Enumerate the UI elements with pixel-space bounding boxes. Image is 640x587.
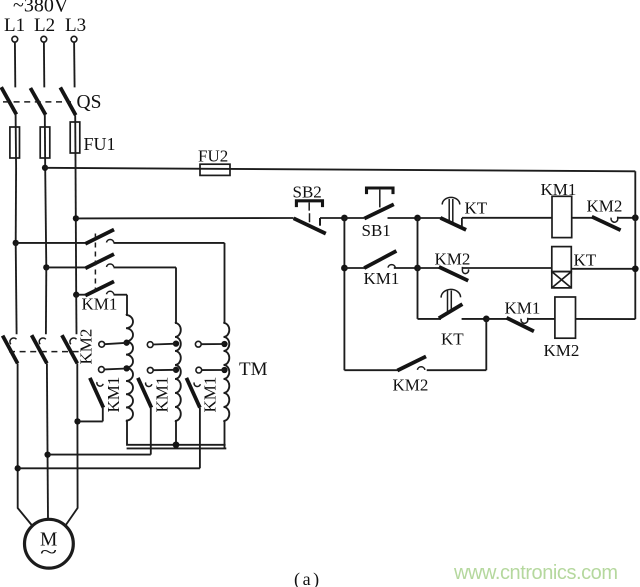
wire phase L2 to KM2 contact	[45, 267, 47, 334]
op coil KT upper box	[552, 247, 572, 272]
node coil 1 lower tap	[123, 365, 129, 371]
svg-text:KM2: KM2	[544, 341, 580, 360]
wire coil 2 bottom lead	[175, 421, 177, 445]
node coil 3 lower tap	[221, 367, 227, 373]
wire coil 1 top lead	[126, 295, 128, 316]
wire coil 3 upper tap	[201, 343, 224, 345]
contact KM1 tap switch 3 hook	[194, 382, 200, 386]
contact KM1 tap switch 1 hook	[97, 382, 103, 386]
contact KM1 NO hook rung 2	[388, 265, 395, 268]
wire middle rail	[417, 218, 419, 319]
op coil KM2	[555, 297, 576, 338]
wire phase L2 upper	[43, 42, 45, 87]
node coil 1 upper tap	[123, 340, 129, 346]
wire phase L3 lower	[65, 363, 78, 526]
op coil KM1	[552, 196, 572, 237]
contact KM1 NC hook rung 3	[521, 318, 528, 324]
button SB2 blade	[294, 218, 326, 233]
node phase L1 tap connection	[15, 465, 21, 471]
svg-text:KM1: KM1	[153, 377, 172, 413]
svg-text:KM2: KM2	[77, 329, 96, 365]
node left rail rung 2	[341, 265, 348, 272]
node phase L2 tap connection	[44, 451, 50, 457]
transformer TM coil 2 winding	[175, 323, 181, 422]
wire KT contact to KM1 coil	[462, 217, 552, 219]
wire KM2 contact to KT coil	[462, 267, 551, 269]
node right rail rung 1	[632, 214, 639, 221]
svg-text:QS: QS	[77, 92, 102, 113]
contact KM1 NO blade rung 2	[364, 251, 396, 268]
contact KM2 main hook pole 1	[10, 338, 17, 344]
contact KT delay rung 1 umbrella arc	[442, 197, 460, 204]
wire tap switch 1 lead down	[102, 408, 104, 422]
contact KM2 NC hook rung 1	[611, 217, 618, 223]
wire tap switch 2 to phase L2	[48, 454, 151, 456]
contact KM1 tap switch 2 blade	[138, 378, 152, 408]
contact KM2 main blade pole 1	[3, 336, 18, 364]
contact KT delay rung 1 fixed stub	[461, 218, 463, 226]
contact KT delay rung 1 stem lines	[449, 199, 453, 222]
contact KM1 NC blade rung 3	[507, 318, 534, 332]
wire phase L1 FU1 down to node A	[15, 168, 17, 243]
wire left control rail	[343, 218, 345, 370]
wire phase L3 upper	[73, 42, 76, 87]
svg-text:L1: L1	[4, 15, 25, 36]
wire star bar second line	[127, 447, 227, 449]
terminal coil 2 lower tap	[147, 367, 153, 373]
contact KM2 NO hook rung 4	[417, 367, 425, 370]
node A rung takeoff phase L1	[13, 240, 19, 246]
node F	[414, 265, 421, 272]
node C rung takeoff phase L3	[73, 292, 79, 298]
contact KM1 tap switch 2 hook	[146, 382, 152, 386]
wire KM1 contact to node F	[394, 267, 418, 269]
wire KT contact to node G	[462, 318, 487, 320]
contact KT delay rung 3 stem lines	[448, 291, 452, 313]
terminal coil 1 upper tap	[99, 341, 105, 347]
wire FU2 feeder line	[45, 168, 635, 172]
switch QS blade pole 3	[60, 87, 75, 115]
node right rail rung 2	[632, 265, 639, 272]
contact KM1 main blade rung A	[85, 230, 114, 244]
wire phase L3 QS to FU1	[74, 115, 76, 160]
wire coil 3 top lead	[224, 243, 226, 323]
svg-text:L2: L2	[34, 15, 55, 36]
svg-text:SB1: SB1	[362, 221, 391, 240]
wire coil 3 bottom lead	[224, 421, 226, 449]
contact KM1 main blade rung B	[85, 254, 114, 268]
contact KM2 NO blade rung 4	[397, 356, 426, 370]
wire phase L3 FU1 down to node C	[75, 160, 78, 295]
svg-text:KM2: KM2	[393, 376, 429, 395]
op coil KT delay box with X	[552, 272, 572, 288]
contact KT delay rung 3 umbrella arc	[441, 289, 461, 297]
wire KM2 contact rung 4 to riser	[427, 369, 487, 371]
svg-text:FU1: FU1	[84, 134, 116, 154]
wire rung C right to coil 1 lead	[114, 294, 128, 296]
wire rung B right to coil 2 lead	[114, 266, 177, 268]
contact KM2 main blade pole 2	[32, 335, 47, 363]
node FU2 takeoff on phase L2	[42, 165, 48, 171]
wire coil 1 bottom lead and star bar	[127, 421, 226, 445]
svg-text:(a): (a)	[294, 569, 322, 587]
switch QS linkage dashed line	[3, 101, 71, 103]
contact KM2 NO hook rung 2	[462, 267, 468, 274]
fuse FU1 pole 3	[70, 122, 80, 153]
wire tap switch 3 lead down	[199, 408, 201, 469]
button SB2 fixed contact stub	[319, 218, 321, 226]
contact KM1 main hook rung A	[107, 239, 114, 242]
node G	[483, 316, 490, 323]
svg-text:L3: L3	[65, 15, 86, 36]
contact KM1 tap switch 3 blade	[186, 378, 200, 408]
wire KM1 contact to KM2 coil	[528, 318, 555, 320]
node B rung takeoff phase L2	[43, 264, 49, 270]
svg-text:SB2: SB2	[293, 183, 322, 202]
switch QS blade pole 1	[1, 87, 16, 114]
svg-text:KT: KT	[574, 251, 597, 270]
wire rung A left	[16, 242, 87, 244]
svg-text:KM1: KM1	[541, 180, 577, 199]
contact KM2 main linkage dashed line	[9, 351, 80, 353]
svg-text:KM1: KM1	[505, 299, 541, 318]
contact KM2 NO blade rung 2	[439, 267, 468, 281]
wire coil 2 upper tap	[153, 343, 176, 346]
terminal L2	[41, 36, 47, 42]
svg-text:KM2: KM2	[435, 250, 471, 269]
wire coil 1 lower tap	[104, 368, 126, 371]
svg-text:TM: TM	[239, 359, 268, 380]
svg-text:KM1: KM1	[364, 269, 400, 288]
svg-text:FU2: FU2	[198, 147, 228, 166]
wire coil 3 lower tap	[202, 369, 225, 371]
wire phase L1 QS to FU1	[15, 114, 18, 168]
wire node D to SB1	[344, 217, 364, 219]
contact KM1 main linkage dashed line	[94, 234, 96, 292]
terminal L1	[12, 36, 18, 42]
wire rung C left	[76, 294, 87, 296]
node star point	[173, 441, 180, 448]
wire tap switch 3 to phase L1	[18, 467, 200, 469]
wire rung B left	[46, 266, 87, 268]
wire phase L3 to KM2 contact	[75, 295, 77, 335]
contact KM1 main hook rung C	[107, 291, 114, 294]
node coil 2 lower tap	[173, 367, 179, 373]
wire right rail	[634, 171, 636, 319]
contact KM1 main blade rung C	[85, 281, 114, 295]
wire SB2 to node D	[320, 217, 344, 219]
contact KT delay rung 3 blade	[439, 304, 463, 318]
terminal coil 2 upper tap	[147, 342, 153, 348]
button SB1 blade	[364, 204, 394, 218]
contact KM2 main hook pole 2	[39, 338, 46, 344]
wire KM2 contact to right rail	[618, 217, 636, 219]
button SB2 stem	[308, 203, 310, 223]
fuse FU2	[200, 164, 230, 175]
transformer TM coil 1 winding	[126, 315, 133, 422]
wire tap switch 2 lead down	[150, 408, 152, 455]
wire SB1 to node E	[388, 217, 418, 219]
node coil 3 upper tap	[221, 341, 227, 347]
wire KM2 coil to right rail	[576, 318, 636, 320]
contact KM1 main hook rung B	[107, 264, 114, 267]
wire phase L1 upper	[14, 42, 16, 87]
contact KT delay rung 1 blade	[440, 218, 466, 230]
wire KM1 coil to KM2 contact	[572, 217, 593, 219]
wire KT coil to right rail	[571, 268, 635, 270]
wire coil 2 top lead	[175, 267, 177, 322]
switch QS blade pole 2	[30, 88, 45, 115]
svg-text:KT: KT	[441, 330, 464, 349]
terminal coil 3 upper tap	[195, 341, 201, 347]
wire phase L2 lower	[47, 363, 48, 519]
terminal coil 3 lower tap	[196, 367, 202, 373]
node E	[414, 215, 421, 222]
contact KM2 main blade pole 3	[62, 335, 77, 363]
wire node E to KT contact	[418, 217, 442, 219]
wire phase L1 lower	[18, 363, 33, 526]
wire phase L1 to KM2 contact	[15, 243, 18, 334]
fuse FU1 pole 2	[40, 127, 50, 158]
svg-text:www.cntronics.com: www.cntronics.com	[453, 562, 618, 584]
contact KM2 NC blade rung 1	[592, 217, 621, 231]
contact KM1 tap switch 1 blade	[90, 378, 104, 408]
terminal L3	[71, 36, 77, 42]
node control takeoff on phase L3	[73, 215, 79, 221]
svg-text:KM1: KM1	[104, 377, 123, 413]
wire tap switch 1 to phase L3	[78, 420, 103, 422]
fuse FU1 pole 1	[10, 127, 20, 158]
wire node F to KM2 contact	[418, 267, 440, 269]
wire phase L2 QS to FU1	[44, 115, 46, 168]
svg-text:KM2: KM2	[587, 197, 623, 216]
svg-text:~: ~	[40, 540, 57, 564]
node D	[341, 215, 348, 222]
wire phase L2 FU1 down to node B	[45, 168, 46, 267]
wire coil 2 lower tap	[153, 369, 176, 371]
contact KM2 main hook pole 3	[70, 338, 77, 344]
motor M circle	[25, 519, 74, 568]
wire node G to KM1 contact	[486, 318, 507, 320]
wire rung 4 left lead	[344, 369, 398, 371]
node coil 2 upper tap	[173, 340, 179, 346]
svg-text:KM1: KM1	[82, 295, 118, 314]
node phase L3 tap connection	[74, 418, 80, 424]
button SB1 cap	[367, 188, 394, 194]
button SB1 stem	[379, 190, 381, 208]
transformer TM coil 3 winding	[224, 323, 230, 422]
wire rung 3 left lead	[418, 318, 442, 320]
wire rung 4 riser to node G	[485, 319, 487, 370]
wire control rung 1 left	[76, 217, 294, 219]
wire coil 1 upper tap	[105, 343, 127, 344]
svg-text:KT: KT	[465, 199, 488, 218]
wire rung 2 left lead	[344, 267, 365, 269]
terminal coil 1 lower tap	[99, 367, 105, 373]
wire rung A right to coil 3 lead	[114, 242, 225, 244]
svg-text:KM1: KM1	[201, 377, 220, 413]
button SB2 cap	[296, 201, 322, 207]
